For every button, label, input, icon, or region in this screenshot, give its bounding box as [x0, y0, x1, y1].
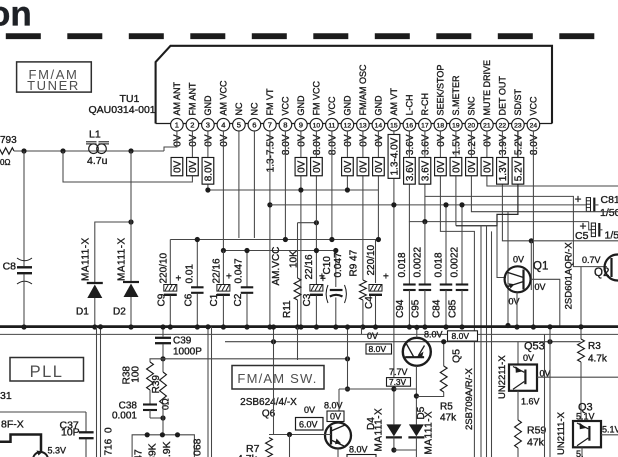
svg-text:3.6V: 3.6V	[421, 134, 432, 155]
svg-text:23: 23	[514, 122, 522, 129]
wire mid lines below bus	[225, 341, 581, 343]
svg-text:1: 1	[175, 120, 179, 129]
svg-text:0: 0	[104, 427, 115, 433]
svg-text:0V: 0V	[374, 134, 385, 147]
pin 18 (SEEK/STOP)	[434, 118, 447, 131]
svg-text:SD/ST: SD/ST	[513, 88, 523, 115]
svg-text:5.1V: 5.1V	[602, 425, 618, 435]
wire Q53 right 0V line	[537, 376, 618, 378]
svg-text:C81: C81	[601, 194, 618, 206]
wire D4-D5 join	[394, 449, 417, 451]
svg-text:22: 22	[499, 122, 507, 129]
svg-text:D1: D1	[76, 307, 89, 318]
svg-text:0Ω: 0Ω	[161, 398, 171, 410]
wire Q53 bottom to R59	[517, 391, 519, 420]
resistor R9 47	[362, 131, 364, 280]
svg-text:0.7V: 0.7V	[582, 255, 601, 265]
svg-text:5.3V: 5.3V	[48, 446, 67, 456]
svg-text:2SB624/4/-X: 2SB624/4/-X	[240, 397, 297, 408]
wire Q5 bottom to D5	[415, 366, 417, 425]
transistor Q2 (edge)	[605, 255, 618, 281]
wire pin21 mute drive line	[487, 131, 618, 186]
svg-text:GND: GND	[203, 95, 213, 116]
wire stub bus to line2	[361, 327, 363, 335]
wire second horizontal line	[0, 333, 618, 335]
capacitor C95 0.0022	[424, 222, 426, 285]
pin 15 (AM VT)	[388, 118, 401, 131]
wire Q1 emitter to bus	[516, 292, 518, 327]
svg-text:3.9V: 3.9V	[498, 134, 509, 155]
pin 23 boxed voltage label 5.2V	[512, 158, 524, 185]
svg-text:NC: NC	[250, 102, 260, 115]
svg-text:0V: 0V	[483, 160, 494, 173]
svg-text:716: 716	[104, 438, 115, 455]
svg-text:UN2111-X: UN2111-X	[556, 411, 567, 455]
svg-text:5.: 5.	[576, 449, 584, 457]
capacitor C1 22/16	[222, 251, 224, 285]
svg-text:1.3-4.0V: 1.3-4.0V	[390, 137, 401, 175]
svg-text:L-CH: L-CH	[405, 94, 415, 115]
svg-text:UN2211-X: UN2211-X	[497, 355, 508, 399]
node junction	[21, 148, 26, 153]
svg-text:D2: D2	[113, 307, 126, 318]
wire Q2 base column to R3	[580, 267, 582, 339]
svg-text:AM.VCC: AM.VCC	[271, 247, 282, 286]
wire R11 column below bus	[297, 327, 299, 360]
svg-text:on: on	[0, 0, 32, 34]
diode D4 MA111-X	[386, 424, 401, 436]
svg-text:AM ANT: AM ANT	[172, 81, 182, 115]
svg-text:0V: 0V	[173, 134, 184, 147]
svg-text:SNC: SNC	[467, 96, 477, 116]
wire pin20 SNC line	[471, 131, 618, 212]
svg-text:FM VT: FM VT	[265, 88, 275, 115]
svg-text:15: 15	[390, 122, 398, 129]
svg-text:TUNER: TUNER	[27, 78, 80, 93]
svg-text:8.0V: 8.0V	[369, 344, 387, 354]
svg-text:0V: 0V	[452, 160, 463, 173]
svg-text:Q2: Q2	[594, 267, 609, 279]
PLL block label box	[10, 358, 84, 382]
svg-text:22/16: 22/16	[304, 254, 315, 279]
pin 10 (FM VCC)	[310, 118, 323, 131]
wire pin19 down	[455, 131, 457, 226]
FM/AM SW block label box	[232, 366, 324, 390]
pin 4 (AM VCC)	[217, 118, 230, 131]
svg-text:+: +	[226, 272, 232, 283]
pin 21 boxed voltage label 0V	[481, 158, 493, 176]
svg-text:+: +	[176, 274, 182, 285]
svg-text:C85: C85	[448, 299, 459, 318]
resistor R3 4.7k	[578, 339, 585, 362]
pin 12 boxed voltage label 0V	[342, 158, 354, 176]
svg-text:0V: 0V	[343, 160, 354, 173]
svg-text:AM VCC: AM VCC	[219, 80, 229, 116]
svg-text:R3: R3	[588, 341, 601, 352]
svg-text:8F-X: 8F-X	[1, 419, 24, 431]
svg-text:7.3V: 7.3V	[389, 377, 407, 387]
pin 17 (R-CH)	[419, 118, 432, 131]
svg-text:PLL: PLL	[30, 363, 64, 381]
FM/AM TUNER block label box	[17, 62, 92, 92]
svg-text:Q1: Q1	[533, 261, 548, 273]
ground bus wire	[0, 325, 618, 328]
wire pin14 down	[377, 131, 379, 240]
svg-text:5.2V: 5.2V	[514, 134, 525, 155]
pin 9 (GND)	[295, 118, 308, 131]
wire Q1 out right	[531, 279, 560, 326]
svg-text:0V: 0V	[297, 160, 308, 173]
svg-text:SEEK/STOP: SEEK/STOP	[436, 65, 446, 116]
resistor R5 47k	[443, 342, 445, 366]
pin 24 (VCC)	[527, 118, 540, 131]
node junction base	[287, 432, 292, 437]
svg-text:6.0V: 6.0V	[299, 419, 318, 429]
wire pin22 to Q1 base	[502, 131, 618, 241]
svg-text:0V: 0V	[359, 134, 370, 147]
pin 13 (FM/AM OSC)	[357, 118, 370, 131]
svg-text:VCC: VCC	[529, 96, 539, 116]
wire y389 extension to Q5 bottom	[394, 388, 417, 390]
svg-text:MA111-X: MA111-X	[117, 237, 128, 281]
svg-text:8.0V: 8.0V	[312, 134, 323, 155]
svg-text:+: +	[320, 274, 326, 285]
svg-text:7.7V: 7.7V	[389, 367, 408, 377]
svg-text:0.047: 0.047	[234, 258, 245, 283]
capacitor C85 0.0022	[461, 205, 463, 285]
svg-text:FM VCC: FM VCC	[312, 81, 322, 116]
svg-text:C95: C95	[411, 299, 422, 318]
pin 8 (VCC)	[279, 118, 292, 131]
svg-text:10P: 10P	[61, 426, 80, 438]
wire Q53 top	[517, 342, 519, 365]
wire vertical x544	[544, 334, 546, 457]
svg-text:0V: 0V	[188, 134, 199, 147]
wire stub down	[289, 435, 291, 457]
svg-text:5.2V: 5.2V	[514, 160, 525, 181]
svg-text:GND: GND	[343, 95, 353, 116]
svg-text:8: 8	[283, 120, 287, 129]
transistor Q53 UN2211-X	[509, 365, 537, 391]
resistor R38 100	[150, 359, 163, 362]
pin 17 boxed voltage label 3.6V	[419, 158, 431, 185]
svg-text:31: 31	[0, 390, 12, 402]
svg-text:0V: 0V	[173, 160, 184, 173]
wire Q6 emitter down	[337, 449, 339, 457]
wire riser to Q1 through	[507, 212, 509, 326]
pin 21 (MUTE DRIVE)	[481, 118, 494, 131]
svg-text:C84: C84	[432, 299, 443, 318]
wire Q1 base drop	[530, 241, 532, 290]
wire pin12 down	[346, 131, 348, 190]
svg-text:MA111-X: MA111-X	[374, 408, 385, 452]
svg-text:1.5V: 1.5V	[452, 134, 463, 155]
svg-text:0V: 0V	[304, 405, 315, 415]
diode D1 MA111-X	[95, 222, 131, 283]
svg-text:1.3V: 1.3V	[498, 160, 509, 181]
resistor R39 0ohm	[162, 359, 164, 372]
svg-text:3.6V: 3.6V	[405, 134, 416, 155]
svg-text:0V: 0V	[523, 353, 534, 363]
svg-text:MA111-X: MA111-X	[424, 411, 435, 455]
svg-text:0.001: 0.001	[112, 411, 137, 422]
svg-text:Q5: Q5	[451, 349, 463, 363]
svg-text:MUTE DRIVE: MUTE DRIVE	[482, 60, 492, 116]
wire Q6 collector up	[338, 389, 340, 423]
svg-text:9: 9	[299, 120, 303, 129]
svg-text:VCC: VCC	[327, 96, 337, 116]
wire vertical pair x208	[207, 327, 209, 457]
pin 16 (L-CH)	[403, 118, 416, 131]
svg-text:AM VT: AM VT	[389, 87, 399, 115]
pin 13 boxed voltage label 0V	[357, 158, 369, 176]
wire pin4 down	[222, 131, 224, 251]
pin 15 boxed voltage label 1.3-4.0V	[388, 135, 400, 179]
svg-text:0V: 0V	[359, 160, 370, 173]
svg-text:0V: 0V	[297, 134, 308, 147]
svg-text:1.6V: 1.6V	[521, 397, 540, 407]
svg-text:24: 24	[530, 122, 538, 129]
svg-text:4.7k: 4.7k	[237, 453, 258, 457]
wire pin17 down to L/R line	[424, 131, 426, 222]
svg-text:FM/AM SW.: FM/AM SW.	[237, 371, 317, 386]
svg-text:1/50: 1/50	[600, 207, 618, 219]
svg-text:+: +	[575, 192, 582, 206]
wire AM VCC rail	[223, 250, 335, 252]
wire pin15 down to D4	[393, 131, 395, 424]
svg-text:2: 2	[190, 120, 194, 129]
resistor bank box (cropped)	[132, 435, 194, 457]
wire y389 cross	[339, 388, 394, 390]
svg-text:C9: C9	[157, 293, 168, 306]
pin 14 boxed voltage label 0V	[373, 158, 385, 176]
wire vertical 347.5	[347, 327, 349, 389]
svg-text:11: 11	[328, 122, 335, 129]
svg-text:220/10: 220/10	[366, 244, 377, 275]
svg-text:MA111-X: MA111-X	[81, 237, 92, 281]
svg-text:20: 20	[468, 122, 476, 129]
svg-text:R5: R5	[440, 402, 453, 413]
svg-text:47k: 47k	[527, 437, 545, 449]
svg-text:4.7k: 4.7k	[588, 354, 608, 365]
wire pin9 down to bus	[300, 131, 302, 327]
svg-text:17: 17	[421, 122, 429, 129]
svg-text:0V: 0V	[367, 331, 378, 341]
wire pin8 down	[284, 131, 286, 240]
svg-text:GND: GND	[296, 95, 306, 116]
svg-text:C94: C94	[395, 299, 406, 318]
svg-text:R-CH: R-CH	[420, 93, 430, 116]
svg-text:0Ω: 0Ω	[0, 158, 10, 167]
wire pin7 down to bus	[269, 131, 271, 327]
svg-text:100: 100	[131, 366, 142, 383]
node junction	[128, 148, 133, 153]
svg-text:0V: 0V	[330, 412, 341, 422]
pin 16 boxed voltage label 3.6V	[404, 158, 416, 185]
transistor (cropped, bottom left)	[0, 435, 41, 453]
wire Q5 top to bus	[416, 328, 418, 338]
svg-text:220/10: 220/10	[159, 252, 170, 283]
wire GND net pins 3-9-12	[208, 189, 379, 191]
svg-text:6: 6	[252, 120, 256, 129]
svg-text:C6: C6	[184, 293, 195, 306]
capacitor C2 0.047	[246, 251, 248, 288]
wire pin3 down	[207, 131, 209, 190]
svg-text:0V: 0V	[483, 134, 494, 147]
pin 11 (VCC)	[326, 118, 339, 131]
svg-text:19: 19	[452, 122, 460, 129]
svg-text:5.1V: 5.1V	[576, 412, 595, 422]
capacitor C3 22/16	[315, 131, 317, 285]
wire Q3 bottom	[581, 447, 583, 457]
svg-text:DET OUT: DET OUT	[498, 76, 508, 116]
svg-text:+: +	[383, 272, 389, 283]
pin 3 boxed voltage label 8.0V	[202, 158, 214, 185]
svg-text:7: 7	[268, 120, 272, 129]
svg-text:1000P: 1000P	[173, 347, 202, 358]
wire pin6 stub	[253, 131, 255, 238]
capacitor C39 1000P	[162, 328, 164, 337]
svg-text:C4: C4	[364, 296, 375, 309]
pin 23 (SD/ST)	[512, 118, 525, 131]
svg-text:0V: 0V	[204, 134, 215, 147]
capacitor C84 0.018	[445, 205, 447, 285]
transistor Q6 2SB624	[325, 423, 351, 449]
pin 22 (DET OUT)	[496, 118, 509, 131]
resistor R59 47k	[515, 420, 522, 448]
svg-text:0V: 0V	[513, 255, 524, 265]
svg-text:2SB709A/R/-X: 2SB709A/R/-X	[464, 368, 475, 430]
svg-text:0V: 0V	[188, 160, 199, 173]
wire riser to Q1 base	[497, 226, 506, 278]
pin 22 boxed voltage label 1.3V	[497, 158, 509, 185]
pin 19 boxed voltage label 0V	[450, 158, 462, 176]
svg-text:12: 12	[344, 122, 352, 129]
node junction mid line	[547, 339, 552, 344]
svg-text:L1: L1	[89, 129, 101, 141]
wire loop to pin2	[63, 131, 192, 182]
svg-text:1.3-7.5V: 1.3-7.5V	[266, 134, 277, 172]
svg-text:8.0V: 8.0V	[349, 445, 368, 455]
svg-text:14: 14	[375, 122, 383, 129]
pin 3 (GND)	[202, 118, 215, 131]
wire pin11 down	[331, 131, 333, 240]
svg-text:47k: 47k	[440, 413, 457, 424]
wire C39 net to Q5 base	[163, 358, 348, 360]
capacitor C38 0.001	[143, 403, 157, 405]
capacitor C9 220/10	[169, 240, 171, 285]
diode D2 MA111-X	[130, 151, 132, 282]
pin 1 boxed voltage label 0V	[171, 158, 183, 176]
svg-text:NC: NC	[234, 102, 244, 115]
pin 6 (NC)	[248, 118, 261, 131]
svg-text:VCC: VCC	[281, 96, 291, 116]
transistor Q3 UN2111-X	[573, 421, 601, 447]
wire long verticals left	[96, 327, 98, 457]
wire pin1 to antenna	[164, 131, 177, 151]
wire pin24 down to bus	[532, 131, 534, 327]
capacitor C6 0.01	[196, 240, 198, 288]
wire AM VT line to C81	[270, 204, 586, 206]
svg-text:4.7u: 4.7u	[87, 155, 108, 167]
node junction C39 bottom	[160, 356, 165, 361]
pin 2 boxed voltage label 0V	[187, 158, 199, 176]
svg-text:8.0V: 8.0V	[204, 160, 215, 181]
boxed voltage labels overlay (redraw over wires)	[171, 158, 183, 176]
svg-text:1/50: 1/50	[605, 230, 618, 242]
svg-text:R59: R59	[527, 425, 546, 437]
bus dots left	[21, 324, 26, 329]
svg-text:C39: C39	[173, 336, 192, 347]
node junction D2 line	[128, 219, 133, 224]
svg-text:8.0V: 8.0V	[529, 134, 540, 155]
transistor Q5 2SB709A/R/-X	[403, 338, 431, 366]
svg-text:3.9K: 3.9K	[161, 441, 173, 457]
wire R11 to pin10 node	[298, 222, 317, 224]
svg-text:0.01: 0.01	[185, 264, 196, 284]
svg-text:22/16: 22/16	[212, 258, 223, 283]
svg-text:8.0V: 8.0V	[424, 329, 443, 339]
svg-text:3.6V: 3.6V	[421, 160, 432, 181]
svg-text:C10: C10	[322, 256, 333, 275]
svg-text:39K: 39K	[147, 443, 159, 457]
svg-text:47: 47	[133, 449, 145, 457]
diode D5 MA111-X	[409, 424, 424, 436]
pin 20 (SNC)	[465, 118, 478, 131]
svg-text:R39: R39	[151, 375, 162, 394]
svg-text:0V: 0V	[509, 297, 520, 307]
svg-text:18: 18	[437, 122, 445, 129]
pin 5 (NC)	[233, 118, 246, 131]
svg-text:QAU0314-001: QAU0314-001	[89, 104, 156, 116]
svg-text:0.018: 0.018	[434, 252, 445, 277]
pin 12 (GND)	[341, 118, 354, 131]
svg-text:C5: C5	[575, 230, 589, 242]
node junction C38 bottom	[160, 415, 165, 420]
dashed section border line	[6, 33, 618, 39]
svg-text:8.0V: 8.0V	[281, 134, 292, 155]
svg-text:0V: 0V	[535, 282, 546, 292]
op IC TU1 tuner chip body	[156, 46, 552, 124]
pin 2 (FM ANT)	[186, 118, 199, 131]
capacitor C10 0.047 trimmer	[335, 251, 337, 288]
resistor R11 10K	[297, 223, 299, 278]
wire pin23 SD/ST staircase	[456, 131, 518, 226]
svg-text:FM ANT: FM ANT	[188, 82, 198, 116]
svg-text:793: 793	[0, 135, 17, 146]
pin 7 (FM VT)	[264, 118, 277, 131]
svg-text:C1: C1	[209, 293, 220, 306]
svg-text:0V: 0V	[219, 134, 230, 147]
node junction	[60, 148, 65, 153]
svg-text:3: 3	[206, 120, 210, 129]
wire vertical x273.5 to R7/Q6 base node	[269, 327, 274, 435]
svg-text:5: 5	[237, 120, 241, 129]
svg-text:16: 16	[406, 122, 414, 129]
svg-text:10: 10	[313, 122, 321, 129]
wire antenna line	[14, 150, 164, 152]
svg-text:0.0022: 0.0022	[412, 246, 423, 277]
svg-text:0.018: 0.018	[397, 252, 408, 277]
svg-text:0.0022: 0.0022	[450, 246, 461, 277]
svg-text:FM/AM OSC: FM/AM OSC	[358, 64, 368, 115]
svg-text:0V: 0V	[436, 160, 447, 173]
pin 9 boxed voltage label 0V	[295, 158, 307, 176]
transistor Q1 2SD601AQR/-X	[505, 266, 531, 292]
svg-text:10K: 10K	[289, 250, 300, 268]
svg-text:0V: 0V	[312, 160, 323, 173]
wire right risers	[480, 226, 482, 457]
